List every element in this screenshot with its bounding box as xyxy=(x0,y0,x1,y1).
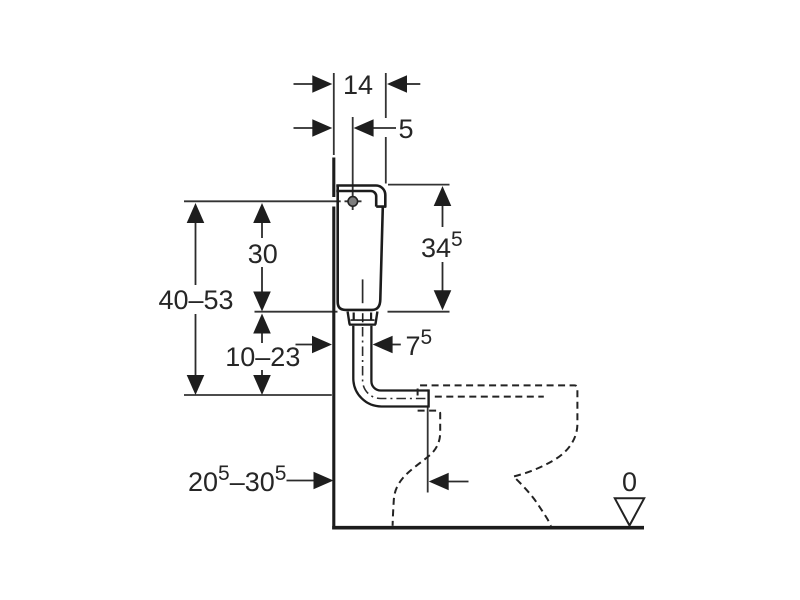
svg-text:40–53: 40–53 xyxy=(158,285,233,315)
svg-text:0: 0 xyxy=(622,467,637,497)
svg-text:14: 14 xyxy=(343,70,373,100)
svg-text:5: 5 xyxy=(398,114,413,144)
svg-text:205–305: 205–305 xyxy=(188,462,286,497)
svg-text:10–23: 10–23 xyxy=(225,342,300,372)
svg-text:30: 30 xyxy=(248,239,278,269)
